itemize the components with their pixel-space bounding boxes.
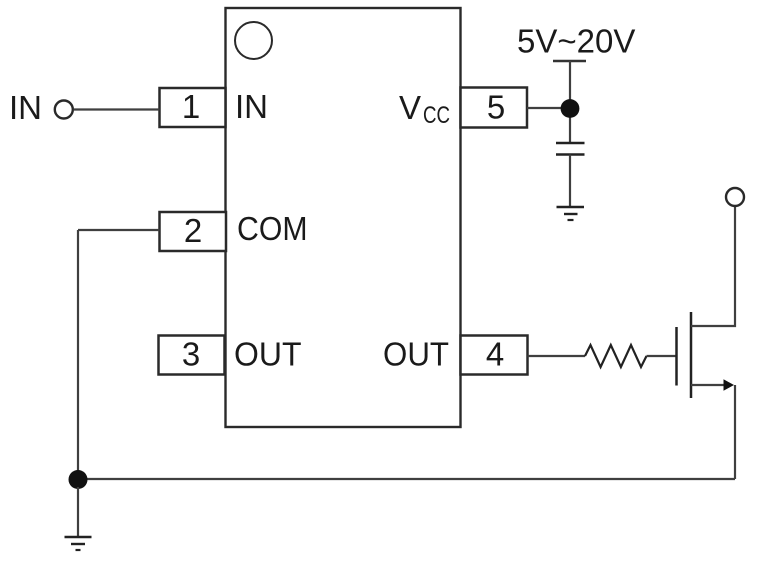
- gate bar: [675, 327, 678, 386]
- channel bar: [690, 312, 693, 398]
- terminal IN (open circle): [55, 101, 73, 119]
- node junction dot (Vcc): [561, 99, 580, 118]
- source lead: [691, 384, 726, 386]
- wire supply to junction: [569, 61, 571, 143]
- svg-text:OUT: OUT: [234, 336, 302, 373]
- wire IN terminal to pin 1: [74, 108, 160, 110]
- wire ground stem left: [77, 487, 79, 536]
- wire left vertical down: [77, 230, 79, 479]
- svg-text:5V~20V: 5V~20V: [517, 23, 635, 60]
- svg-text:COM: COM: [237, 210, 308, 247]
- wire resistor to gate: [647, 355, 677, 357]
- capacitor C1: [556, 143, 585, 155]
- drain lead: [691, 207, 735, 327]
- svg-text:CC: CC: [423, 102, 450, 129]
- svg-text:V: V: [399, 89, 421, 126]
- ground (right): [557, 207, 585, 220]
- pin 2 box: [160, 212, 227, 251]
- svg-text:IN: IN: [235, 88, 268, 125]
- supply rail bar: [553, 60, 586, 63]
- svg-text:1: 1: [182, 88, 200, 125]
- pin 3 box: [159, 336, 225, 375]
- resistor R1: [585, 345, 647, 367]
- svg-text:4: 4: [486, 336, 504, 373]
- svg-text:IN: IN: [9, 89, 42, 126]
- transistor Q1 (N-MOSFET): [677, 207, 736, 480]
- node junction dot (COM / ground rail): [69, 470, 88, 489]
- wire capacitor to ground: [569, 155, 571, 207]
- terminal drain (open circle): [726, 188, 744, 206]
- svg-text:OUT: OUT: [383, 336, 449, 373]
- pin 4 box: [461, 336, 528, 375]
- source arrow: [724, 379, 735, 390]
- IC body U1: [226, 8, 461, 427]
- wire pin 2 to left vertical: [78, 229, 160, 231]
- pin 1 box: [160, 88, 226, 127]
- pin 5 box: [461, 88, 528, 128]
- wire pin 4 to resistor: [528, 355, 586, 357]
- wire pin 5 to junction: [527, 107, 570, 109]
- svg-text:5: 5: [487, 89, 505, 126]
- svg-text:2: 2: [184, 212, 202, 249]
- wire source down to rail: [734, 385, 736, 479]
- ground (left): [65, 537, 92, 550]
- wire bottom rail: [78, 478, 735, 480]
- pin-1 indicator circle: [235, 22, 272, 59]
- svg-text:3: 3: [182, 336, 200, 373]
